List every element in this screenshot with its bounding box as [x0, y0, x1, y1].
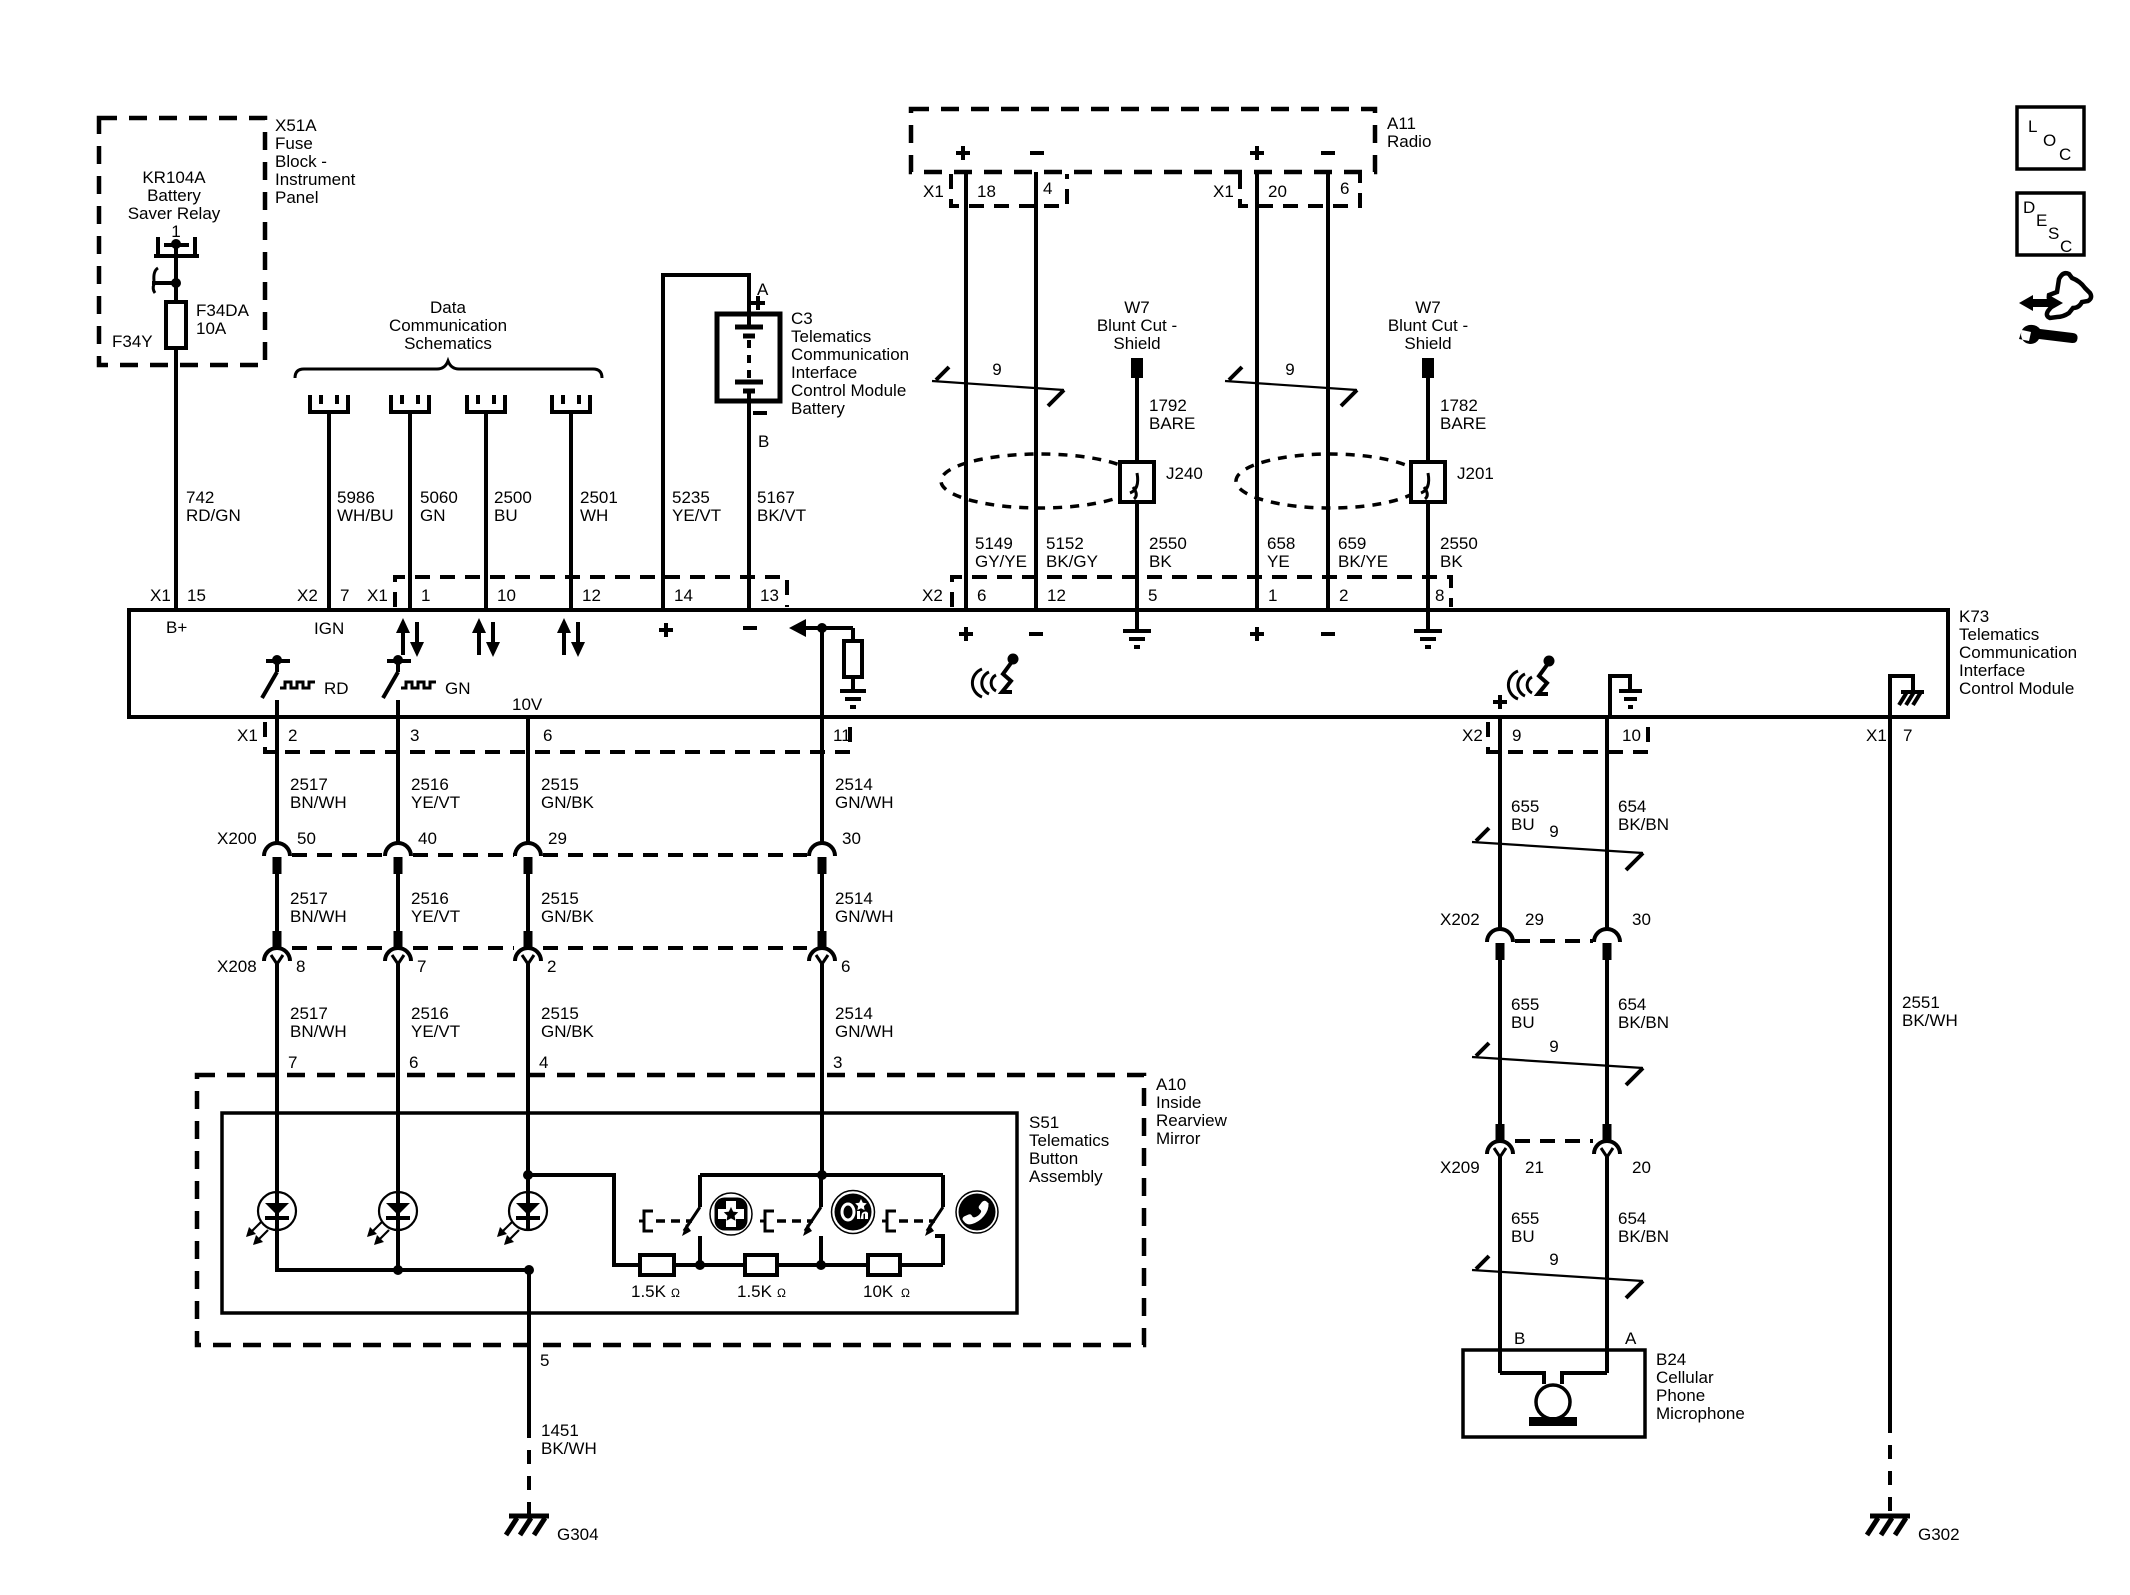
label 5060 GN: [420, 488, 458, 525]
minus sign pin X2-12 internal: [1029, 632, 1043, 636]
svg-text:Interface: Interface: [1959, 661, 2025, 680]
shield ellipse around right radio pair: [1236, 454, 1424, 508]
svg-text:O: O: [2043, 131, 2056, 150]
svg-text:B: B: [1514, 1329, 1525, 1348]
svg-text:12: 12: [1047, 586, 1066, 605]
svg-text:6: 6: [409, 1053, 418, 1072]
connector X209 pin 21: [1487, 1124, 1513, 1157]
svg-text:Shield: Shield: [1404, 334, 1451, 353]
svg-text:2515: 2515: [541, 889, 579, 908]
pin label 7 S51: [288, 1053, 297, 1072]
label 5149 GY/YE: [975, 534, 1027, 571]
svg-text:Phone: Phone: [1656, 1386, 1705, 1405]
svg-text:Panel: Panel: [275, 188, 318, 207]
wire 659 BK/YE radio 6 to K73 X2-2: [1326, 172, 1330, 610]
svg-text:2517: 2517: [290, 1004, 328, 1023]
label 2500 BU: [494, 488, 532, 525]
pin label 30: [842, 829, 861, 848]
svg-text:10K: 10K: [863, 1282, 894, 1301]
svg-text:Telematics: Telematics: [1029, 1131, 1109, 1150]
wire 5149 GY/YE radio 18 to K73 X2-6: [964, 172, 968, 610]
svg-text:5986: 5986: [337, 488, 375, 507]
pin label 30 x202: [1632, 910, 1651, 929]
svg-text:K73: K73: [1959, 607, 1989, 626]
svg-text:Data: Data: [430, 298, 466, 317]
svg-text:659: 659: [1338, 534, 1366, 553]
resistor 1.5K second: [745, 1255, 777, 1275]
label 654 BK/BN seg1: [1618, 797, 1669, 834]
svg-text:10A: 10A: [196, 319, 227, 338]
svg-text:2516: 2516: [411, 1004, 449, 1023]
svg-text:YE/VT: YE/VT: [411, 1022, 460, 1041]
connector X200 pin 40: [385, 843, 411, 874]
svg-text:GN: GN: [445, 679, 471, 698]
svg-text:2516: 2516: [411, 775, 449, 794]
ground G302 chassis symbol: [1867, 1516, 1910, 1535]
svg-text:2517: 2517: [290, 775, 328, 794]
pin label 7 x208: [417, 957, 426, 976]
svg-text:RD/GN: RD/GN: [186, 506, 241, 525]
pin label 6 bottom: [543, 726, 552, 745]
pin label 12 right: [1047, 586, 1066, 605]
svg-text:W7: W7: [1124, 298, 1150, 317]
svg-text:Button: Button: [1029, 1149, 1078, 1168]
K73 bottom connector dashed box X1 left: [265, 722, 850, 752]
K73 bottom connector dashed box X2 right: [1488, 722, 1648, 752]
svg-text:X51A: X51A: [275, 116, 317, 135]
LED 3: [497, 1113, 547, 1245]
svg-text:B: B: [758, 432, 769, 451]
svg-text:7: 7: [1903, 726, 1912, 745]
blunt cut stub W7 right: [1422, 358, 1434, 378]
svg-text:7: 7: [417, 957, 426, 976]
svg-text:BU: BU: [494, 506, 518, 525]
S51 telematics button assembly box: [222, 1113, 1017, 1313]
svg-text:Rearview: Rearview: [1156, 1111, 1228, 1130]
svg-text:Microphone: Microphone: [1656, 1404, 1745, 1423]
label 659 BK/YE: [1338, 534, 1388, 571]
wire 5986 WH/BU to K73 pin X2-7: [327, 412, 331, 610]
label Data Communication Schematics: [389, 298, 507, 353]
svg-text:A: A: [1625, 1329, 1637, 1348]
label KR104A Battery Saver Relay: [128, 168, 221, 241]
internal sense arrow and pulldown resistor pin 11: [789, 619, 862, 690]
svg-text:Communication: Communication: [389, 316, 507, 335]
svg-text:2: 2: [547, 957, 556, 976]
node LED3 branch junction: [523, 1170, 533, 1180]
svg-text:2551: 2551: [1902, 993, 1940, 1012]
svg-text:Inside: Inside: [1156, 1093, 1201, 1112]
svg-text:Interface: Interface: [791, 363, 857, 382]
wire 2551 BK/WH solid part: [1888, 717, 1892, 1419]
svg-text:2500: 2500: [494, 488, 532, 507]
svg-text:Schematics: Schematics: [404, 334, 492, 353]
label C3 Telematics Communication Interface Control Module Battery: [791, 309, 909, 418]
plus sign battery A: [751, 296, 765, 310]
plus sign pin X2-9 internal: [1493, 695, 1507, 709]
svg-text:BK/WH: BK/WH: [541, 1439, 597, 1458]
svg-text:12: 12: [582, 586, 601, 605]
svg-text:YE/VT: YE/VT: [411, 907, 460, 926]
label J201: [1457, 464, 1494, 483]
wire 2501 WH to K73 pin X1-12: [569, 412, 573, 610]
pin label 4 S51: [539, 1053, 548, 1072]
pin label 6 x208: [841, 957, 850, 976]
svg-text:9: 9: [992, 360, 1001, 379]
svg-text:2550: 2550: [1440, 534, 1478, 553]
svg-text:BK/VT: BK/VT: [757, 506, 806, 525]
svg-text:2: 2: [288, 726, 297, 745]
label B+: [166, 618, 187, 637]
pin label 1 right: [1268, 586, 1277, 605]
svg-text:29: 29: [548, 829, 567, 848]
wire 658 YE radio 20 to K73 X2-1: [1255, 172, 1259, 610]
K73 top connector dashed box X2: [952, 577, 1451, 607]
connector stub 2 (off-page): [391, 395, 429, 412]
svg-text:654: 654: [1618, 995, 1646, 1014]
svg-text:9: 9: [1512, 726, 1521, 745]
wire 2515 GN/BK segment 1: [526, 717, 530, 843]
wire 2516 YE/VT segment 1: [396, 717, 400, 843]
connector X208 pin 8: [264, 931, 290, 964]
svg-text:21: 21: [1525, 1158, 1544, 1177]
battery C3 box: [717, 314, 780, 401]
plus sign radio right: [1250, 146, 1264, 160]
microphone symbol right internal: [1508, 656, 1554, 700]
wire 5152 BK/GY radio 4 to K73 X2-12: [1034, 172, 1038, 610]
microphone element B24: [1500, 1373, 1607, 1426]
fuse F34DA 10A: [166, 283, 186, 348]
svg-text:Telematics: Telematics: [791, 327, 871, 346]
svg-text:2514: 2514: [835, 775, 873, 794]
svg-text:B24: B24: [1656, 1350, 1686, 1369]
svg-text:Battery: Battery: [791, 399, 845, 418]
svg-text:5152: 5152: [1046, 534, 1084, 553]
svg-text:X2: X2: [922, 586, 943, 605]
svg-text:6: 6: [977, 586, 986, 605]
label F34Y: [112, 332, 153, 351]
svg-text:BN/WH: BN/WH: [290, 1022, 347, 1041]
svg-text:Control Module: Control Module: [791, 381, 906, 400]
svg-text:5: 5: [1148, 586, 1157, 605]
wire 654 BK/BN segment 3: [1605, 1157, 1609, 1373]
LED 2: [367, 1113, 417, 1245]
switch top bus: [700, 1173, 943, 1177]
connector X208 pin 7: [385, 931, 411, 964]
svg-text:1: 1: [421, 586, 430, 605]
svg-text:A11: A11: [1387, 114, 1416, 133]
connector X202 pin 30: [1594, 929, 1620, 960]
wire 654 BK/BN segment 1: [1605, 717, 1609, 930]
LED 1: [246, 1113, 296, 1245]
svg-text:Telematics: Telematics: [1959, 625, 2039, 644]
svg-text:1.5K: 1.5K: [631, 1282, 667, 1301]
resistor 1.5K first: [640, 1255, 674, 1275]
svg-text:3: 3: [410, 726, 419, 745]
label 9 seg1: [1549, 822, 1558, 841]
svg-text:Cellular: Cellular: [1656, 1368, 1714, 1387]
svg-text:GN/BK: GN/BK: [541, 907, 595, 926]
pin label 3 S51: [833, 1053, 842, 1072]
svg-text:1: 1: [1268, 586, 1277, 605]
minus sign pin X2-2 internal: [1321, 632, 1335, 636]
svg-text:GN/WH: GN/WH: [835, 793, 894, 812]
label J240: [1166, 464, 1203, 483]
splice J201: [1411, 462, 1445, 502]
minus sign pin 13 internal: [743, 626, 757, 630]
switch 2 (OnStar button): [760, 1175, 821, 1265]
svg-text:GN: GN: [420, 506, 446, 525]
label 5235 YE/VT: [672, 488, 721, 525]
svg-text:1782: 1782: [1440, 396, 1478, 415]
svg-text:2: 2: [1339, 586, 1348, 605]
CAN arrows pin 10: [472, 618, 500, 657]
wire pin 5 from LED bus out of S51: [527, 1270, 531, 1345]
icon SOS cross: [710, 1193, 752, 1235]
wire 5235 YE/VT from K73 pin X1-14 to battery A: [663, 275, 749, 610]
svg-text:18: 18: [977, 182, 996, 201]
svg-text:30: 30: [842, 829, 861, 848]
wire 1782 BARE shield drain right: [1426, 378, 1430, 610]
label 2517 BN/WH seg1: [290, 775, 347, 812]
radio connector X1 dashed box left: [951, 174, 1067, 206]
label 5986 WH/BU: [337, 488, 394, 525]
svg-text:7: 7: [288, 1053, 297, 1072]
svg-text:742: 742: [186, 488, 214, 507]
svg-text:11: 11: [833, 726, 851, 745]
wire 2516 YE/VT segment 3: [396, 964, 400, 1113]
connector X200 pin 30: [809, 843, 835, 874]
svg-text:6: 6: [1340, 179, 1349, 198]
label X202: [1440, 910, 1480, 929]
wire 2515 GN/BK segment 3: [526, 964, 530, 1113]
svg-text:X208: X208: [217, 957, 257, 976]
label 1451 BK/WH: [541, 1421, 597, 1458]
wire 2515 GN/BK segment 2: [526, 874, 530, 931]
svg-text:C3: C3: [791, 309, 813, 328]
label 2516 YE/VT seg1: [411, 775, 460, 812]
label 2517 BN/WH seg3: [290, 1004, 347, 1041]
svg-text:5235: 5235: [672, 488, 710, 507]
label 9 right: [1285, 360, 1294, 379]
svg-text:2501: 2501: [580, 488, 618, 507]
wire 2514 GN/WH segment 2: [820, 874, 824, 931]
svg-text:BARE: BARE: [1149, 414, 1195, 433]
label 2515 GN/BK seg2: [541, 889, 595, 926]
X202 harness dashed line: [1515, 939, 1593, 943]
svg-text:X1: X1: [923, 182, 944, 201]
battery C3 cells: [735, 314, 763, 401]
svg-text:658: 658: [1267, 534, 1295, 553]
connector X200 pin 29: [515, 843, 541, 874]
svg-text:6: 6: [841, 957, 850, 976]
label G302: [1918, 1525, 1960, 1544]
wire 655 BU segment 2: [1498, 960, 1502, 1124]
brace for data communication schematics: [295, 361, 602, 378]
pin label X1 15: [150, 586, 206, 605]
svg-text:Ω: Ω: [777, 1286, 786, 1300]
svg-text:655: 655: [1511, 995, 1539, 1014]
pin label 8: [1435, 586, 1444, 605]
svg-text:BU: BU: [1511, 1013, 1535, 1032]
label 655 BU seg3: [1511, 1209, 1539, 1246]
twisted pair symbol 9 seg3: [1472, 1256, 1643, 1298]
svg-text:15: 15: [187, 586, 206, 605]
label K73 Telematics Communication Interface Control Module: [1959, 607, 2077, 698]
svg-text:30: 30: [1632, 910, 1651, 929]
resistor chain wire R1 left: [674, 1260, 745, 1270]
wire 2516 YE/VT segment 2: [396, 874, 400, 931]
svg-text:Communication: Communication: [1959, 643, 2077, 662]
label 2550 BK right: [1440, 534, 1478, 571]
svg-text:3: 3: [833, 1053, 842, 1072]
svg-text:G304: G304: [557, 1525, 599, 1544]
wire 5060 GN to K73 pin X1-1: [408, 412, 412, 610]
relay KR104A contact: [154, 237, 199, 283]
svg-text:BN/WH: BN/WH: [290, 793, 347, 812]
svg-text:14: 14: [674, 586, 693, 605]
svg-text:9: 9: [1285, 360, 1294, 379]
svg-text:8: 8: [296, 957, 305, 976]
wire 2551 BK/WH dashed part: [1888, 1419, 1892, 1514]
pin label A: [1625, 1329, 1637, 1348]
svg-text:D: D: [2023, 198, 2035, 217]
LED driver symbol GN: [383, 655, 436, 717]
pin label 6 S51: [409, 1053, 418, 1072]
harness routing icon (arrows and wrench): [2019, 273, 2091, 344]
label 2514 GN/WH seg2: [835, 889, 894, 926]
minus sign radio right: [1321, 151, 1335, 155]
svg-text:Ω: Ω: [671, 1286, 680, 1300]
label 1792 BARE: [1149, 396, 1195, 433]
label 2550 BK left: [1149, 534, 1187, 571]
svg-text:8: 8: [1435, 586, 1444, 605]
svg-text:2515: 2515: [541, 775, 579, 794]
label X208: [217, 957, 257, 976]
svg-text:YE/VT: YE/VT: [672, 506, 721, 525]
svg-text:2515: 2515: [541, 1004, 579, 1023]
ground G304 chassis symbol: [506, 1516, 549, 1535]
svg-text:Shield: Shield: [1113, 334, 1160, 353]
svg-text:2514: 2514: [835, 1004, 873, 1023]
svg-text:4: 4: [539, 1053, 548, 1072]
svg-text:Ω: Ω: [901, 1286, 910, 1300]
svg-text:2550: 2550: [1149, 534, 1187, 553]
wire 2517 BN/WH segment 2: [275, 874, 279, 931]
label 10K ohm: [863, 1282, 910, 1301]
pin label 8 x208: [296, 957, 305, 976]
svg-text:13: 13: [760, 586, 779, 605]
svg-text:GN/WH: GN/WH: [835, 907, 894, 926]
label A10 Inside Rearview Mirror: [1156, 1075, 1228, 1148]
svg-text:YE: YE: [1267, 552, 1290, 571]
svg-text:Fuse: Fuse: [275, 134, 313, 153]
connector stub 1 (off-page): [310, 395, 348, 412]
icon OnStar: [832, 1191, 875, 1234]
svg-text:BARE: BARE: [1440, 414, 1486, 433]
svg-text:654: 654: [1618, 1209, 1646, 1228]
svg-text:RD: RD: [324, 679, 349, 698]
X209 harness dashed line: [1515, 1139, 1593, 1143]
svg-text:1451: 1451: [541, 1421, 579, 1440]
label RD: [324, 679, 349, 698]
earth ground internal pin 5: [1123, 610, 1151, 647]
svg-text:9: 9: [1549, 1037, 1558, 1056]
wire 655 BU segment 1: [1498, 717, 1502, 930]
svg-text:2516: 2516: [411, 889, 449, 908]
svg-text:20: 20: [1632, 1158, 1651, 1177]
svg-text:10V: 10V: [512, 695, 543, 714]
wire 655 BU segment 3: [1498, 1157, 1502, 1373]
label W7 Blunt Cut - Shield left: [1097, 298, 1177, 353]
svg-text:X1: X1: [150, 586, 171, 605]
resistor chain wire R3 right to switch3: [900, 1236, 943, 1265]
svg-text:GN/BK: GN/BK: [541, 1022, 595, 1041]
svg-text:655: 655: [1511, 1209, 1539, 1228]
pin label 5: [540, 1351, 549, 1370]
label 1.5K ohm first: [631, 1282, 680, 1301]
pin label 40: [418, 829, 437, 848]
svg-text:10: 10: [1622, 726, 1641, 745]
svg-text:X200: X200: [217, 829, 257, 848]
pin label B: [1514, 1329, 1525, 1348]
svg-text:J240: J240: [1166, 464, 1203, 483]
svg-text:YE/VT: YE/VT: [411, 793, 460, 812]
svg-text:BK: BK: [1440, 552, 1463, 571]
label 654 BK/BN seg2: [1618, 995, 1669, 1032]
svg-text:BU: BU: [1511, 1227, 1535, 1246]
svg-text:Mirror: Mirror: [1156, 1129, 1201, 1148]
svg-text:B+: B+: [166, 618, 187, 637]
shield ellipse around left radio pair: [941, 454, 1139, 508]
svg-text:BK/YE: BK/YE: [1338, 552, 1388, 571]
svg-text:9: 9: [1549, 822, 1558, 841]
label X51A Fuse Block - Instrument Panel: [275, 116, 356, 207]
label 2514 GN/WH seg3: [835, 1004, 894, 1041]
svg-text:20: 20: [1268, 182, 1287, 201]
svg-text:5: 5: [540, 1351, 549, 1370]
label B24 Cellular Phone Microphone: [1656, 1350, 1745, 1423]
connector X208 pin 6: [809, 931, 835, 964]
CAN arrows pin 12: [557, 618, 585, 657]
K73 top connector dashed box X1: [395, 577, 787, 607]
label X1 20 6 radio pins: [1213, 179, 1349, 201]
label 10V: [512, 695, 543, 714]
wire pin 11 internal: [820, 628, 824, 717]
pin label 29: [548, 829, 567, 848]
label 9 left: [992, 360, 1001, 379]
label F34DA 10A: [196, 301, 250, 338]
svg-text:BU: BU: [1511, 815, 1535, 834]
plus sign pin X2-1 internal: [1250, 627, 1264, 641]
X208 harness dashed line: [292, 946, 807, 950]
svg-text:29: 29: [1525, 910, 1544, 929]
svg-text:GN/BK: GN/BK: [541, 793, 595, 812]
svg-text:G302: G302: [1918, 1525, 1960, 1544]
radio connector X1 dashed box right: [1240, 174, 1360, 206]
pin label 21 x209: [1525, 1158, 1544, 1177]
splice J240: [1120, 462, 1154, 502]
svg-text:X202: X202: [1440, 910, 1480, 929]
pin label 20 x209: [1632, 1158, 1651, 1177]
svg-text:2517: 2517: [290, 889, 328, 908]
pin label 50: [297, 829, 316, 848]
wire 1451 BK/WH solid part: [527, 1345, 531, 1424]
label A + at battery positive: [757, 280, 769, 299]
pin label 2 right: [1339, 586, 1348, 605]
svg-text:X1: X1: [367, 586, 388, 605]
svg-text:L: L: [2028, 117, 2037, 136]
